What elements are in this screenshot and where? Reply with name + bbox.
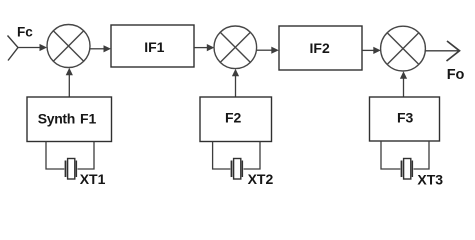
svg-text:XT3: XT3 — [417, 172, 443, 188]
svg-text:XT2: XT2 — [248, 171, 274, 187]
svg-text:XT1: XT1 — [80, 171, 106, 187]
wire IF1 to mixer M2 arrow — [194, 47, 208, 49]
block F3 — [370, 97, 440, 141]
wire crystal loop XT3 — [381, 141, 429, 169]
mixer M2 — [214, 26, 257, 69]
input break symbol — [8, 36, 19, 61]
block Synth F1 — [27, 97, 112, 142]
wire M3 output with open arrowhead — [425, 50, 458, 52]
block IF2 — [279, 26, 362, 70]
svg-text:Fo: Fo — [447, 67, 465, 83]
wire F2 up-arrow into M2 — [235, 75, 237, 98]
crystal XT3 — [402, 159, 413, 180]
block F2 — [200, 97, 272, 142]
svg-text:IF2: IF2 — [310, 40, 330, 56]
svg-text:IF1: IF1 — [144, 39, 164, 55]
wire IF2 to mixer M3 arrow — [362, 49, 375, 51]
block IF1 — [111, 25, 194, 67]
wire crystal loop XT2 — [213, 142, 260, 170]
mixer M1 — [47, 25, 90, 68]
wire crystal loop XT1 — [46, 142, 94, 170]
wire Synth F1 up-arrow into M1 — [68, 74, 70, 98]
crystal XT2 — [232, 159, 243, 180]
svg-text:F2: F2 — [225, 110, 242, 126]
svg-text:Synth: Synth — [38, 110, 75, 126]
mixer M3 — [381, 26, 426, 71]
crystal XT1 — [66, 159, 77, 180]
wire M2 to IF2 arrow — [257, 49, 272, 51]
svg-text:F1: F1 — [80, 110, 97, 126]
wire Fc input arrow into mixer M1 — [18, 47, 40, 49]
wire F3 up-arrow into M3 — [403, 77, 405, 97]
wire M1 to IF1 arrow — [90, 48, 105, 50]
svg-text:F3: F3 — [397, 110, 414, 126]
svg-text:Fc: Fc — [17, 24, 33, 39]
